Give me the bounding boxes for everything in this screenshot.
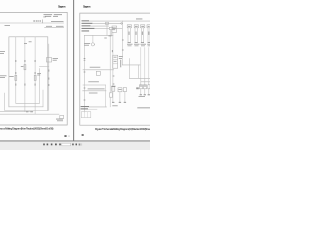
svg-text:Diagrams: Diagrams	[58, 4, 66, 8]
svg-text:Diagrams: Diagrams	[83, 4, 91, 8]
svg-text:rwood Wiring Diagram (Non-Trac: rwood Wiring Diagram (Non-Traction) 2003…	[0, 126, 54, 130]
svg-text:Figure 7: Schematic/Wiring Dia: Figure 7: Schematic/Wiring Diagram (Air)…	[95, 127, 150, 131]
